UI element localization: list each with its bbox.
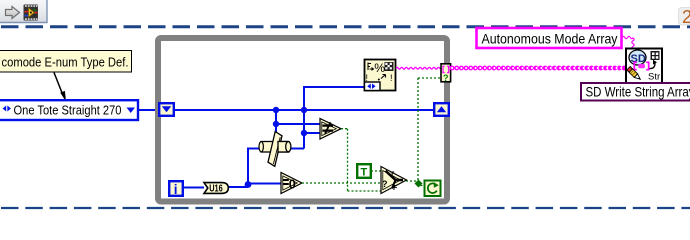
VI icon <box>24 5 39 21</box>
svg-text:T: T <box>390 172 395 179</box>
svg-text:One Tote Straight 270: One Tote Straight 270 <box>14 103 122 118</box>
svg-text:SD Write String Array: SD Write String Array <box>586 85 690 100</box>
svg-text:comode E-num Type Def.: comode E-num Type Def. <box>2 55 129 70</box>
toolbar tab <box>0 0 47 23</box>
page number 2 badge <box>679 8 690 26</box>
svg-text:i: i <box>174 182 178 197</box>
green dotted: not-equal output to select bottom <box>341 129 382 191</box>
equal zero node <box>281 173 302 194</box>
right shift register <box>434 103 449 116</box>
svg-text:?: ? <box>443 73 449 83</box>
T constant <box>357 164 371 178</box>
svg-text:0: 0 <box>289 177 296 191</box>
wire: enum to left shift register <box>138 109 160 111</box>
left shift register <box>159 103 174 116</box>
wire: branch to index array top <box>275 110 277 139</box>
i iteration terminal <box>169 181 183 197</box>
loop tunnel [] ? <box>441 64 451 83</box>
index array node <box>259 132 291 167</box>
green dotted: T constant to select top <box>371 170 382 172</box>
top dashed boundary <box>1 25 690 28</box>
wire: U16 to equal-zero <box>228 184 282 188</box>
string array chain wire: tunnel to SD node <box>452 66 625 71</box>
svg-text:!: ! <box>390 73 393 83</box>
svg-text:F: F <box>393 185 398 192</box>
wire junction diamond <box>415 180 423 188</box>
green dotted: equal-zero output to select middle <box>302 182 382 184</box>
svg-text:Autonomous Mode Array: Autonomous Mode Array <box>482 32 618 47</box>
label: SD Write String Array <box>581 83 690 101</box>
svg-text:2: 2 <box>682 7 690 27</box>
not equal node <box>320 119 341 140</box>
svg-text:Str: Str <box>648 72 660 83</box>
select node <box>381 167 407 194</box>
while loop border <box>158 38 447 202</box>
svg-text:SD: SD <box>631 53 646 65</box>
U16 conversion bubble <box>204 183 228 195</box>
wire: i terminal to U16 <box>184 187 204 189</box>
svg-text:U16: U16 <box>209 184 223 195</box>
string wire: label squiggle to SD node <box>622 36 633 38</box>
svg-text:T: T <box>361 167 368 179</box>
wire: branch to not-equal bottom input <box>304 132 321 134</box>
green dotted: select output to condition terminal and tunnel <box>406 78 441 186</box>
svg-text:?: ? <box>382 179 388 189</box>
label arrow <box>54 73 63 95</box>
wire: index array output <box>290 148 304 150</box>
enum constant: One Tote Straight 270 <box>0 100 138 120</box>
run arrow icon <box>6 7 20 19</box>
wire: index array input from U16 branch <box>248 149 262 187</box>
label: Autonomous Mode Array <box>477 28 622 48</box>
free label: comode E-num Type Def. <box>0 51 132 73</box>
wire: branch to not-equal top input <box>276 123 321 125</box>
wire: vertical bus to format node <box>304 87 364 149</box>
format/array-to-string node <box>365 60 396 91</box>
junction dots <box>273 107 279 113</box>
SD write node <box>626 49 662 84</box>
loop condition terminal (continue if true) <box>425 181 441 197</box>
bottom dashed boundary <box>1 207 690 209</box>
svg-text:%: % <box>374 61 385 75</box>
string wire: format node to tunnel (wavy) <box>396 67 442 69</box>
wire: shift register bus <box>174 109 434 111</box>
